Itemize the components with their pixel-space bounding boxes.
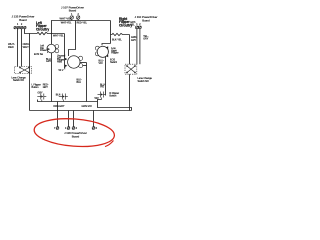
svg-text:GRY: GRY xyxy=(38,92,44,95)
resistor R1 left base resistor xyxy=(30,32,65,34)
connector J107 pin 1 xyxy=(70,16,73,21)
wire bottom ground bus xyxy=(30,110,132,112)
resistor R2 right base resistor xyxy=(111,33,130,35)
connector J110 label xyxy=(135,15,158,22)
wire ground riser right xyxy=(129,74,131,110)
wire node down to button bus xyxy=(86,63,88,102)
wire pin drop 4 xyxy=(73,111,75,127)
svg-text:WHT-YEL: WHT-YEL xyxy=(53,35,64,38)
svg-text:1: 1 xyxy=(65,127,67,130)
label RED-GRY xyxy=(43,84,49,90)
connector J133 pin numbers xyxy=(17,23,23,26)
svg-text:ORN-GRY: ORN-GRY xyxy=(53,105,65,108)
svg-text:GRN-VIO: GRN-VIO xyxy=(82,105,92,108)
svg-text:Board: Board xyxy=(69,9,77,13)
label Lane Change Switch right xyxy=(138,77,153,83)
label BLU-VIO below Q3 xyxy=(99,60,105,65)
wire label ORN-WHT xyxy=(23,42,30,49)
svg-text:Board: Board xyxy=(72,134,80,138)
opto switch left flipper button xyxy=(37,94,46,102)
right flipper cabinet switch (dashed box) xyxy=(125,64,137,74)
left flipper cabinet switch (dashed box) xyxy=(15,67,32,74)
svg-text:Power: Power xyxy=(40,49,47,52)
connector J133 pin 4 xyxy=(24,26,27,29)
svg-text:GRY: GRY xyxy=(143,37,149,40)
wire Q2 collector to node xyxy=(80,62,87,64)
label Unused Left Flipper Hold xyxy=(57,54,66,63)
svg-text:GRY: GRY xyxy=(46,60,52,63)
wire J110 pin1 down xyxy=(136,29,138,64)
connector J118 label xyxy=(64,131,87,138)
svg-text:2: 2 xyxy=(139,23,141,26)
svg-text:VIO: VIO xyxy=(100,86,104,89)
svg-text:1: 1 xyxy=(17,23,19,26)
wire Q3 emitter down xyxy=(105,56,107,95)
wire label WHT-RED xyxy=(8,42,15,49)
svg-text:Button: Button xyxy=(109,95,117,98)
connector J118 pin numbers xyxy=(54,127,98,130)
wire pin drop 2 xyxy=(57,111,59,127)
svg-text:2: 2 xyxy=(21,23,23,26)
svg-text:EOS Sw: EOS Sw xyxy=(34,53,43,56)
connector J110 pin numbers xyxy=(136,23,141,26)
title Left Flipper Circuitry xyxy=(36,21,49,31)
svg-text:YEL: YEL xyxy=(130,23,135,26)
wire Q1 emitter down xyxy=(51,53,53,102)
svg-text:Hold: Hold xyxy=(57,61,63,64)
transistor Q3 right flipper power xyxy=(95,46,108,57)
wire button bus xyxy=(38,100,98,102)
connector J133 pin 1 xyxy=(14,26,17,29)
svg-text:Board: Board xyxy=(19,18,27,22)
connector J118 pin 1 xyxy=(56,127,59,130)
svg-text:50 V: 50 V xyxy=(59,69,64,72)
wire right feed down xyxy=(110,21,112,44)
svg-text:WHT: WHT xyxy=(23,45,29,49)
svg-text:Button: Button xyxy=(32,86,40,89)
svg-text:Flipper: Flipper xyxy=(111,52,119,55)
svg-text:1: 1 xyxy=(136,23,138,26)
svg-text:7: 7 xyxy=(54,127,56,130)
connector J133 pin 2 xyxy=(17,26,20,29)
connector J133 pin 3 xyxy=(20,26,23,29)
opto switch right flipper button xyxy=(98,92,106,100)
connector J110 pin 2 xyxy=(139,26,142,29)
svg-text:Circuitry: Circuitry xyxy=(36,27,49,31)
wire ground return from J133 pin 4 xyxy=(25,29,30,111)
label GRN-GRY right xyxy=(143,35,149,41)
connector J107 pin numbers xyxy=(71,13,80,16)
svg-text:VIO: VIO xyxy=(99,62,103,65)
connector J107 pin 2 xyxy=(77,16,80,21)
wire button bus drop to ground bus xyxy=(57,102,59,111)
svg-text:4: 4 xyxy=(76,127,78,130)
svg-text:BLK-: BLK- xyxy=(56,94,62,97)
svg-text:Board: Board xyxy=(142,18,150,22)
label GRN-GRY left xyxy=(131,36,137,42)
transistor Q1 left flipper power xyxy=(47,44,59,53)
wire Q2 emitter to node xyxy=(83,65,87,67)
title Right Flipper Circuitry xyxy=(119,17,132,28)
svg-text:WHT-YEL: WHT-YEL xyxy=(61,22,72,25)
connector J118 pin 3 xyxy=(72,127,75,130)
wire R2 to right cabinet switch xyxy=(129,35,131,65)
label R Flipper Button xyxy=(109,92,119,98)
wire pin drop 3 xyxy=(68,111,70,127)
junction dot node A xyxy=(51,33,52,34)
svg-text:Switch: Switch xyxy=(110,61,118,64)
svg-text:Switch NO: Switch NO xyxy=(13,79,24,82)
svg-text:BLU: BLU xyxy=(77,81,82,84)
opto switch left lane change xyxy=(59,94,68,102)
svg-text:GRY: GRY xyxy=(43,86,49,89)
connector J110 pin 1 xyxy=(136,26,139,29)
label GRY-YEL small xyxy=(130,21,136,26)
svg-text:WHT-VIO: WHT-VIO xyxy=(60,17,72,21)
svg-text:BLK-YEL: BLK-YEL xyxy=(112,39,123,42)
red highlight overlap stroke xyxy=(105,141,114,147)
connector J107 label xyxy=(61,5,84,12)
label Left Flip Power xyxy=(40,45,47,53)
connector J133 label xyxy=(11,15,34,23)
svg-text:RED: RED xyxy=(8,45,14,49)
label L Flipper Button xyxy=(32,84,41,90)
label Low Right Flipper xyxy=(111,47,119,55)
svg-text:RED-YEL: RED-YEL xyxy=(77,22,88,25)
wire from J133 to cabinet switch right xyxy=(21,29,23,67)
wire feed to Q2 xyxy=(64,34,66,69)
transistor Q2 left flipper hold xyxy=(64,56,82,70)
label BLK-BLU xyxy=(77,78,83,84)
label BLU-GRY xyxy=(46,58,52,63)
wire R2 output to Q3 base xyxy=(102,44,111,46)
label Lane Change Switch left xyxy=(11,76,26,82)
wire right button to ground riser xyxy=(98,100,132,111)
wire from J133 to cabinet switch left xyxy=(17,29,19,67)
label BLU-VIO above right button xyxy=(100,83,106,88)
wire rail to Q2 collector xyxy=(69,21,76,57)
wire +50V top rail xyxy=(52,21,111,45)
red highlight ellipse xyxy=(33,116,115,149)
svg-text:Switch NO: Switch NO xyxy=(138,80,149,83)
svg-text:GRY: GRY xyxy=(131,39,137,42)
right cabinet switch contacts xyxy=(127,66,136,74)
connector J118 pin 2 xyxy=(67,127,70,130)
svg-text:6: 6 xyxy=(96,127,98,130)
wire pin drop 5 xyxy=(93,111,95,127)
connector J118 pin 4 xyxy=(92,127,95,130)
left cabinet switch contacts xyxy=(20,67,30,73)
wire J110 pin2 down xyxy=(139,29,141,64)
